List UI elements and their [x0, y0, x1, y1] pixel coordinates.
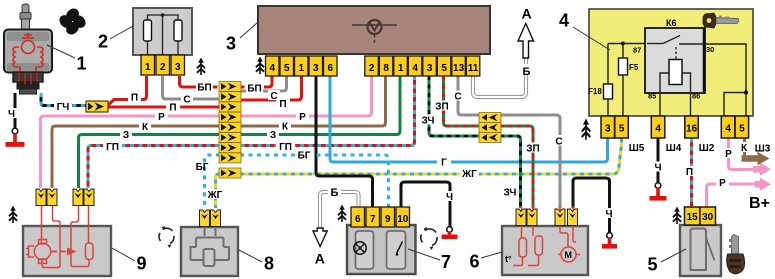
- ground red: sensor 6 side: [602, 233, 617, 249]
- svg-text:3: 3: [605, 124, 611, 135]
- joint connector ЖГ: [219, 168, 241, 178]
- svg-text:А: А: [315, 251, 325, 267]
- svg-text:Ш4: Ш4: [666, 143, 682, 154]
- svg-text:С: С: [454, 92, 461, 103]
- pointer lines and big numerals: [47, 22, 686, 262]
- wire Б white: block3 pin11 to arrow А top: [473, 58, 526, 97]
- wire П red-cyan: relay pin Ш2-16 to ignition pin 15: [690, 138, 693, 207]
- svg-text:8: 8: [264, 254, 274, 274]
- svg-text:ГЧ: ГЧ: [57, 102, 70, 113]
- red winding pattern: [13, 33, 43, 71]
- svg-text:Ч: Ч: [605, 209, 612, 220]
- svg-text:Ш3: Ш3: [755, 144, 771, 155]
- wire БП right side: strip to block3 pin4: [240, 86, 264, 89]
- svg-text:4: 4: [412, 63, 418, 74]
- wire labels with white backing: [6, 64, 750, 218]
- svg-text:БГ: БГ: [298, 151, 311, 162]
- svg-text:К: К: [741, 143, 748, 154]
- svg-text:3: 3: [226, 34, 236, 54]
- connection arrow А up (top): [518, 24, 534, 59]
- relay box pin Ш2 16: [685, 116, 699, 138]
- svg-text:М: М: [565, 250, 573, 260]
- svg-text:Ч: Ч: [446, 192, 453, 203]
- fan blade symbol: [57, 6, 88, 37]
- svg-text:С: С: [555, 137, 562, 148]
- svg-text:3: 3: [313, 63, 319, 74]
- internal wires 85 86 to pins: [660, 93, 691, 117]
- svg-text:ЗЧ: ЗЧ: [422, 116, 435, 127]
- svg-text:2: 2: [369, 63, 375, 74]
- svg-text:6: 6: [328, 63, 334, 74]
- svg-text:Р: Р: [158, 112, 165, 123]
- wire Г cyan: block3 pin6 to relay box pin Ш5-3: [330, 76, 608, 162]
- svg-text:1: 1: [299, 63, 305, 74]
- internal wire node 87 with fuses: [608, 44, 645, 118]
- svg-text:3: 3: [175, 62, 181, 73]
- svg-text:Г: Г: [441, 158, 447, 169]
- relay box pin Ш4 4: [651, 116, 665, 138]
- svg-text:6: 6: [355, 214, 361, 225]
- svg-text:3: 3: [427, 63, 433, 74]
- svg-text:К: К: [142, 122, 149, 133]
- svg-text:5: 5: [284, 63, 290, 74]
- svg-text:К6: К6: [666, 18, 677, 28]
- svg-text:Р: Р: [299, 112, 306, 123]
- wire ЗЧ green-black: block3 pin3b through junction to sensor6: [429, 76, 479, 136]
- internal wire node 30: [705, 44, 746, 117]
- wire black: switch pin10 to ground: [401, 182, 450, 227]
- ground red: relay box Ш4: [650, 183, 667, 201]
- svg-text:8: 8: [383, 63, 389, 74]
- wire Б white: switch pin6 bracket to arrow А: [320, 192, 359, 231]
- svg-text:С: С: [270, 91, 277, 102]
- wire Ч motor ground (black): [14, 93, 17, 128]
- svg-text:2: 2: [98, 32, 108, 52]
- wire С grey: block3 pin13 through junction to sensor6: [458, 76, 479, 115]
- plug pair on sensor 8 (БГ,ЖГ): [200, 210, 210, 227]
- relay contact: [647, 36, 703, 60]
- svg-text:Б: Б: [331, 187, 339, 199]
- svg-text:4: 4: [655, 124, 661, 135]
- joint connector ГЧ/П: [86, 101, 108, 112]
- wire ЖГ left: strip to element8 right pin: [216, 174, 221, 208]
- svg-text:В+: В+: [749, 195, 770, 212]
- ground red: motor: [6, 128, 25, 147]
- relay coil: [669, 60, 682, 85]
- check valve symbol: [86, 243, 94, 260]
- wire ГЧ motor to connector (black+cyan): [41, 93, 86, 106]
- svg-text:F5: F5: [629, 63, 639, 72]
- svg-text:Б: Б: [523, 66, 531, 78]
- svg-text:ЗП: ЗП: [526, 144, 539, 155]
- lamp symbol: [354, 242, 366, 254]
- svg-text:А: А: [521, 6, 531, 22]
- fan gauge symbol on block 3: [352, 20, 397, 45]
- relay box pins Ш3 4 5: [721, 116, 735, 138]
- plug pair on pump 9 (З,ГП): [73, 189, 83, 206]
- svg-text:16: 16: [686, 124, 698, 135]
- instrument cluster block 3: [258, 6, 490, 54]
- plug pair on sensor 6 (С,Ч): [555, 209, 565, 226]
- block 3 right pins 2 8 1 4 3 5 13 11: [365, 56, 379, 76]
- svg-text:F18: F18: [588, 87, 602, 96]
- svg-text:1: 1: [398, 63, 404, 74]
- wire black: sensor6 right pin to ground: [573, 178, 610, 233]
- svg-text:11: 11: [468, 63, 479, 74]
- svg-text:З: З: [270, 130, 276, 141]
- wire Ч black: block3 pin3 down to switch pin7: [316, 76, 373, 208]
- motor bottom: [13, 72, 43, 82]
- fuse F5: [619, 58, 628, 75]
- wire Р pink: ignition pin30 up to B+ arrow: [707, 184, 757, 207]
- svg-text:ЗП: ЗП: [435, 102, 448, 113]
- fan motor 1: [4, 4, 52, 94]
- wire С grey: block2 pin2 down right to strip row 2: [163, 76, 221, 99]
- svg-text:З: З: [123, 130, 129, 141]
- svg-text:4: 4: [559, 11, 569, 31]
- Ш connector labels: [629, 143, 771, 155]
- key icon in block 4: [703, 13, 739, 28]
- svg-text:Р: Р: [725, 149, 732, 160]
- svg-text:ЗЧ: ЗЧ: [504, 188, 517, 199]
- svg-text:К: К: [282, 122, 289, 133]
- svg-text:Ч: Ч: [654, 163, 661, 174]
- svg-text:13: 13: [453, 63, 465, 74]
- svg-text:1: 1: [76, 54, 86, 74]
- connection arrow А down (bottom): [313, 228, 327, 247]
- sensor unit 8: [181, 227, 238, 276]
- svg-text:1: 1: [145, 62, 151, 73]
- rotation arrows near switch 7: [421, 229, 437, 246]
- wire П red: connector fork up to pin1 of block 2: [107, 76, 147, 106]
- switch 7 pins 6 7 9 10: [351, 207, 365, 227]
- svg-text:2: 2: [160, 62, 166, 73]
- wire БГ right: strip to switch pin9 (white-cyan dashed): [240, 155, 389, 208]
- svg-text:9: 9: [136, 254, 146, 274]
- temp sensor + fan unit 6: [502, 206, 588, 275]
- chassis symbol: near switch 7: [338, 205, 347, 222]
- svg-text:15: 15: [687, 212, 699, 223]
- heater fan switch 7: [347, 225, 416, 274]
- switch contact symbol: [397, 242, 403, 254]
- svg-text:85: 85: [648, 92, 656, 101]
- wire Р pink: relay pin Ш3-4 to arrow: [729, 136, 756, 170]
- svg-text:П: П: [279, 99, 286, 110]
- joint connector block (3 rows, left-pointing): [479, 113, 501, 143]
- plug pair on pump 9 (Р,К): [36, 189, 46, 206]
- mounting block 4 (fuse/relay box): [588, 9, 753, 117]
- wire Р pink: block3 pin2 to box9 connector: [41, 76, 372, 188]
- svg-text:БП: БП: [197, 83, 211, 94]
- relay box pins Ш5 3 5: [601, 116, 615, 138]
- wire ГП red-cyan: block3 pin4b to box9 connector: [88, 76, 415, 188]
- ground red: switch 7 side: [442, 227, 458, 239]
- svg-text:5: 5: [619, 124, 625, 135]
- svg-text:86: 86: [692, 92, 700, 101]
- chassis symbol: near relay box Ш5: [581, 119, 590, 140]
- relay K6: [645, 28, 705, 93]
- svg-text:6: 6: [469, 252, 479, 272]
- chassis symbol: near pump 9: [9, 206, 18, 223]
- ignition key icon: [727, 235, 745, 274]
- svg-text:10: 10: [397, 214, 409, 225]
- svg-text:П: П: [686, 167, 693, 178]
- wire БП red-white: block2 pin3 to strip row 1: [180, 76, 197, 87]
- svg-text:ГП: ГП: [106, 142, 119, 153]
- chassis symbol: near block 2: [197, 58, 206, 75]
- svg-text:5: 5: [441, 63, 447, 74]
- wire К brown: block3 pin8 to box9 connector: [52, 76, 386, 188]
- wire ЗП green-red: block3 pin5b through junction to sensor6: [444, 76, 480, 126]
- chassis symbol: near block 3: [256, 57, 265, 74]
- resistor block 2: [133, 8, 192, 55]
- wire БГ left: strip to element8 left pin: [205, 155, 221, 208]
- svg-text:ГП: ГП: [279, 142, 292, 153]
- svg-text:Ш2: Ш2: [699, 143, 715, 154]
- chassis symbol: near ignition 5: [673, 207, 682, 224]
- wire З green: block3 pin1b to box9 connector: [79, 76, 401, 188]
- rotation arrows near sensor 8: [159, 228, 174, 243]
- svg-text:П: П: [169, 103, 176, 114]
- svg-text:БП: БП: [247, 84, 261, 95]
- wire П red: connector to strip row 3: [107, 106, 220, 109]
- joint connector strip (8 rows): [219, 82, 241, 163]
- svg-text:7: 7: [441, 252, 451, 272]
- pink arrow to fuse box: [753, 163, 771, 176]
- wire К brown: relay pin Ш3-5 to arrow: [743, 136, 746, 156]
- block 3 left pins 4 5 1 3 6: [266, 56, 280, 76]
- svg-text:7: 7: [370, 214, 376, 225]
- svg-text:87: 87: [633, 46, 641, 55]
- svg-text:С: С: [183, 95, 190, 106]
- ignition switch 5: [680, 225, 745, 276]
- pink arrow B+: [755, 178, 771, 191]
- fuse F18: [604, 84, 613, 99]
- svg-text:Р: Р: [719, 178, 726, 189]
- svg-text:ЖГ: ЖГ: [207, 190, 223, 201]
- svg-text:Ш5: Ш5: [629, 143, 645, 154]
- wire ЖГ yellow-cyan: strip connector to relay box pin Ш5-5: [240, 138, 622, 174]
- pump motor symbol: [34, 243, 50, 259]
- svg-text:30: 30: [702, 212, 714, 223]
- svg-text:4: 4: [725, 124, 731, 135]
- wire П right side: strip to block3 pin1: [240, 76, 302, 100]
- plug pair on sensor 6 (ЗЧ,ЗП): [516, 209, 526, 226]
- svg-text:4: 4: [270, 63, 276, 74]
- svg-text:5: 5: [739, 124, 745, 135]
- block 2 pins 1 2 3: [141, 55, 155, 75]
- svg-text:Ч: Ч: [8, 109, 15, 120]
- svg-text:П: П: [131, 93, 138, 104]
- brown arrow К: [742, 152, 770, 165]
- svg-text:9: 9: [385, 214, 391, 225]
- ignition switch pins 15 30: [685, 207, 701, 225]
- svg-text:5: 5: [647, 255, 657, 275]
- wire С right side: strip to block3 pin5: [240, 76, 287, 91]
- svg-text:30: 30: [706, 45, 714, 54]
- svg-text:БГ: БГ: [196, 162, 209, 173]
- svg-text:t°: t°: [505, 254, 512, 264]
- fuel pump unit 9: [23, 206, 111, 276]
- svg-text:ЖГ: ЖГ: [461, 169, 477, 180]
- wire Ч black: relay pin Ш4-4 to ground: [657, 138, 660, 183]
